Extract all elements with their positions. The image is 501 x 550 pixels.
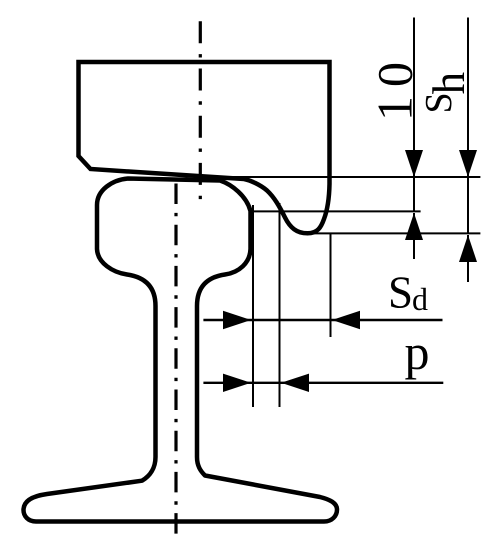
template centerline [199,21,202,199]
extension line C from original side face [330,234,332,338]
dimension line 10 upper segment [413,18,415,212]
svg-text:p: p [405,324,430,380]
horizontal reference line L1 (worn surface level) [228,176,480,178]
arrow right at Sd left [223,311,251,329]
dimension Sh lower tail [467,235,469,282]
wear gauge template block with hooked lip [79,62,330,233]
dimension line Sh upper segment [467,18,469,234]
rail centerline [174,184,177,536]
arrow down at 10 line [405,150,423,177]
arrow down at Sh line [459,150,477,177]
arrow left at p right [281,374,309,392]
arrow up at 10 lower [405,213,423,240]
horizontal reference line L2 (10mm below surface) [252,210,421,212]
arrow up at Sh lower [459,235,477,262]
dimension line Sd [203,319,442,321]
svg-text:10: 10 [367,53,423,121]
arrow left at Sd right [332,311,360,329]
extension line A from worn side face [252,205,254,407]
extension line B from lip face [279,203,281,407]
dimension line p [203,382,443,384]
arrow right at p left [223,374,251,392]
horizontal reference line L3 (dip bottom level) [300,232,480,234]
rail profile: head, web, foot [24,179,338,522]
dimension 10 lower tail [413,213,415,259]
